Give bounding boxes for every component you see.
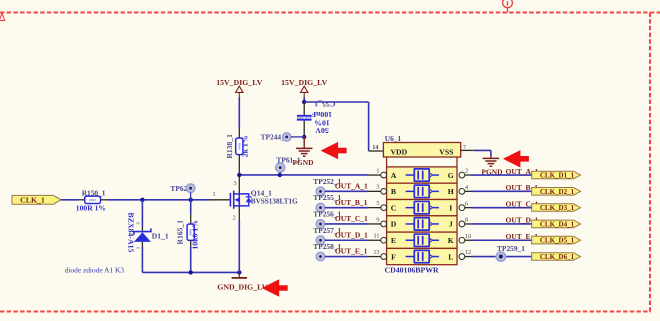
svg-text:diode zdiode A1 K3: diode zdiode A1 K3 (65, 265, 125, 274)
resistor R138_1 2k 1% (238, 98, 240, 129)
wire R150 to Q14 gate (107, 199, 210, 201)
wire output L to port (472, 256, 532, 258)
svg-text:U6_1: U6_1 (385, 134, 402, 143)
svg-text:I: I (449, 203, 452, 212)
U6 pin 13 (input F) (368, 256, 381, 258)
boundary corner triangle (0, 13, 5, 20)
svg-text:Q14_1: Q14_1 (251, 188, 272, 197)
svg-text:10k0 1%: 10k0 1% (190, 220, 199, 250)
svg-text:OUT_E_1: OUT_E_1 (335, 247, 368, 256)
U6 body neck (386, 157, 388, 167)
svg-text:J: J (449, 220, 453, 229)
svg-text:11: 11 (374, 233, 380, 240)
wire ground rail (142, 271, 239, 273)
capacitor C55_1 100nF (297, 115, 312, 117)
svg-text:VSS: VSS (439, 147, 453, 156)
top dashed boundary (0, 11, 660, 13)
right dashed boundary (649, 13, 651, 312)
wire net OUT_D_1 to pin 11 (325, 239, 368, 241)
svg-text:1: 1 (212, 191, 215, 198)
svg-text:D1_1: D1_1 (152, 232, 169, 241)
wire output H to port (472, 190, 532, 192)
op-amp U6_1 power box VDD/VSS (383, 143, 460, 158)
wire net OUT_E_1 to pin 13 (325, 256, 368, 258)
port CLK_1 (12, 195, 61, 204)
svg-text:A: A (391, 171, 397, 180)
ground PGND at pin 7 (490, 156, 492, 158)
svg-text:0603: 0603 (89, 198, 96, 202)
annotation arrow at PGND capacitor (321, 142, 347, 159)
svg-text:CLK_1: CLK_1 (20, 196, 45, 205)
ground PGND below capacitor (303, 137, 305, 148)
svg-text:D: D (391, 220, 397, 229)
node cap bottom / TP244 (302, 135, 306, 139)
info marker icon (503, 0, 513, 8)
svg-text:1: 1 (376, 167, 379, 174)
svg-text:OUT_C_1: OUT_C_1 (335, 214, 368, 223)
svg-text:VDD: VDD (391, 147, 408, 156)
U6 pin 12 (output L) (459, 254, 465, 260)
port CLK_D4_1 (532, 220, 581, 228)
svg-text:2: 2 (465, 168, 468, 175)
node cap top (302, 100, 306, 104)
svg-text:GND_DIG_LV: GND_DIG_LV (217, 282, 267, 291)
U6 pin 11 (input E) (368, 239, 381, 241)
zener diode D1_1 BZX84-A15 (141, 200, 143, 227)
U6 pin 10 (output K) (459, 237, 465, 243)
svg-text:R138_1: R138_1 (225, 134, 234, 159)
U6 pin 5 (input C) (368, 207, 381, 209)
U6 pin 3 (input B) (368, 190, 381, 192)
wire source (238, 206, 240, 220)
svg-text:6: 6 (465, 200, 468, 207)
U6 pin 2 (output G) (459, 172, 465, 178)
resistor R150_1 100R 1% (79, 199, 85, 201)
svg-text:3: 3 (233, 180, 236, 187)
svg-text:2: 2 (233, 215, 236, 222)
port CLK_D5_1 (532, 236, 581, 244)
svg-text:CLK_D6_1: CLK_D6_1 (540, 253, 575, 261)
wire cap top (303, 102, 305, 115)
port CLK_D1_1 (532, 171, 581, 179)
bottom dashed boundary (0, 310, 651, 312)
wire net OUT_B_1 to pin 5 (325, 207, 368, 209)
svg-text:10: 10 (465, 233, 471, 240)
U6 pin 9 (input D) (368, 223, 381, 225)
port CLK_D2_1 (532, 188, 581, 196)
port CLK_D6_1 (532, 253, 581, 261)
annotation arrow at GND_DIG_LV (262, 279, 288, 296)
svg-text:E: E (391, 236, 396, 245)
svg-text:K: K (448, 236, 454, 245)
svg-text:BZX84-A15: BZX84-A15 (126, 213, 135, 253)
U6 pin 6 (output I) (459, 205, 465, 211)
svg-text:R150_1: R150_1 (82, 188, 106, 197)
U6 gate rows body (387, 167, 457, 183)
svg-text:PGND: PGND (293, 158, 314, 167)
svg-text:50V: 50V (315, 126, 329, 135)
svg-text:H: H (448, 187, 454, 196)
transistor Q14_1 BVSS138LT1G (229, 193, 231, 207)
U6 pin 4 (output H) (459, 188, 465, 194)
wire output K to port (472, 239, 532, 241)
svg-text:F: F (391, 252, 396, 261)
resistor R165_1 10k0 1% (190, 200, 192, 214)
svg-text:X7R_0603: X7R_0603 (296, 116, 311, 120)
svg-text:100R 1%: 100R 1% (76, 203, 106, 212)
junction Q14 source / GND stem (237, 270, 241, 274)
wire 15V to cap node (303, 98, 305, 103)
svg-text:CLK_D3_1: CLK_D3_1 (540, 204, 575, 212)
svg-text:13: 13 (373, 249, 379, 256)
svg-text:C: C (391, 203, 397, 212)
wire Q14 drain to U6 pin 1 (239, 174, 368, 176)
svg-text:CLK_D1_1: CLK_D1_1 (540, 171, 575, 179)
wire output J to port (472, 223, 532, 225)
svg-text:CLK_D2_1: CLK_D2_1 (540, 188, 575, 196)
wire CLK_1 to R150 (61, 199, 79, 201)
svg-text:CLK_D5_1: CLK_D5_1 (540, 237, 575, 245)
svg-text:OUT_B_1: OUT_B_1 (335, 198, 368, 207)
svg-text:L: L (448, 252, 453, 261)
svg-text:R165_1: R165_1 (176, 220, 185, 245)
power port GND_DIG_LV (238, 272, 240, 277)
svg-text:7: 7 (463, 144, 466, 151)
node junction R165/TP63 top (189, 198, 193, 202)
svg-text:C55_1: C55_1 (314, 100, 335, 109)
svg-text:14: 14 (372, 144, 378, 151)
wire gate pin (210, 199, 230, 201)
wire output G to port (472, 174, 532, 176)
junction TP61 (278, 173, 282, 177)
svg-text:CD40106BPWR: CD40106BPWR (385, 266, 440, 275)
svg-text:12: 12 (465, 249, 471, 256)
svg-text:OUT_D_1: OUT_D_1 (335, 230, 368, 239)
node junction D1 top (140, 198, 144, 202)
svg-text:2k 1%: 2k 1% (240, 135, 249, 157)
svg-text:100nF: 100nF (311, 110, 332, 119)
svg-text:4: 4 (465, 184, 468, 191)
wire cap bottom (303, 121, 305, 137)
junction R138/drain (237, 173, 241, 177)
wire output I to port (472, 207, 532, 209)
annotation arrow at PGND pin 7 (503, 150, 529, 167)
wire cap node to pin 14 (304, 101, 368, 103)
junction R165 bottom (189, 270, 193, 274)
U6 pin 7 VSS wire (461, 149, 474, 151)
wire drain (238, 175, 240, 194)
port CLK_D3_1 (532, 204, 581, 212)
svg-text:5: 5 (376, 200, 379, 207)
wire net OUT_A_1 to pin 3 (325, 190, 368, 192)
svg-text:BVSS138LT1G: BVSS138LT1G (251, 197, 298, 205)
U6 pin 8 (output J) (459, 221, 465, 227)
svg-text:G: G (448, 171, 454, 180)
svg-text:CLK_D4_1: CLK_D4_1 (540, 220, 575, 228)
svg-text:9: 9 (376, 216, 379, 223)
svg-text:B: B (391, 187, 396, 196)
svg-text:3: 3 (376, 184, 379, 191)
svg-text:8: 8 (465, 217, 468, 224)
wire net OUT_C_1 to pin 9 (325, 223, 368, 225)
svg-text:OUT_A_1: OUT_A_1 (335, 181, 368, 190)
U6 pin 1 (input A) (368, 174, 381, 176)
